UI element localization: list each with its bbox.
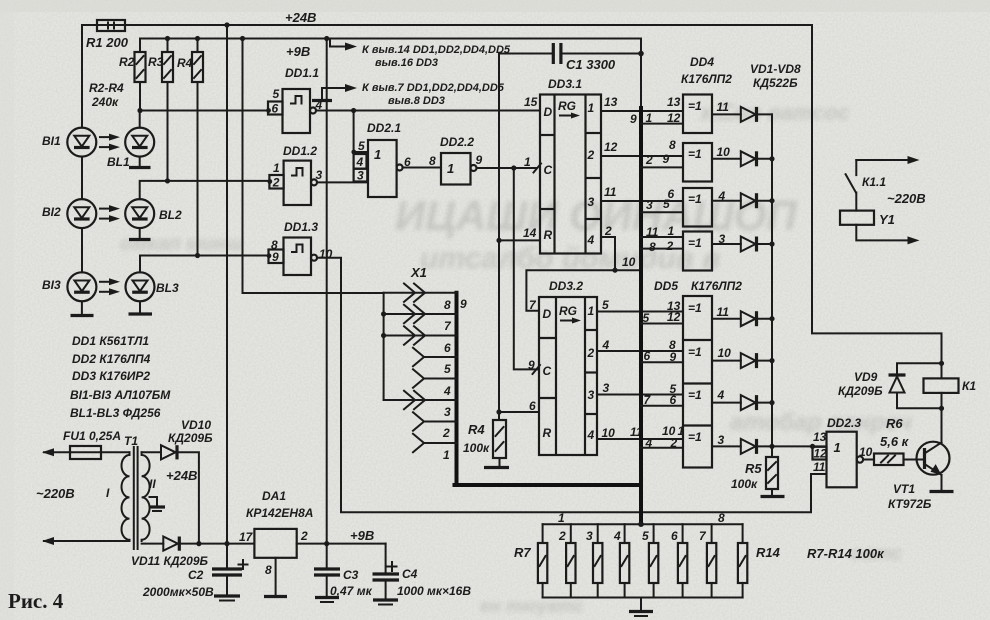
- XOR gate DD4.4: [641, 224, 741, 271]
- wire BI1 to BI2: [81, 157, 83, 200]
- resistor R12: [671, 524, 687, 597]
- group bus horizontal: [455, 483, 642, 487]
- svg-text:R2: R2: [119, 55, 135, 69]
- wire BL2 node to DD1.2 input: [140, 181, 270, 199]
- group bus vertical (thin top): [640, 39, 642, 111]
- wire +24V top rail: [82, 24, 812, 26]
- svg-text:3: 3: [603, 381, 610, 395]
- svg-text:6: 6: [444, 341, 451, 355]
- resistor R10: [613, 524, 629, 597]
- svg-text:10: 10: [319, 247, 333, 261]
- svg-text:5: 5: [643, 311, 650, 325]
- wire BL1 node to DD1.1 input: [140, 111, 268, 128]
- svg-text:К1.1: К1.1: [862, 175, 886, 189]
- group bus vertical (thick): [639, 108, 643, 524]
- svg-text:+24В: +24В: [285, 10, 316, 25]
- resistor R2: [119, 39, 146, 111]
- wire VT1 collector up: [941, 408, 943, 442]
- diode VD6: [741, 353, 775, 368]
- svg-text:BL3: BL3: [156, 281, 179, 295]
- resistor R9: [586, 524, 602, 597]
- emission arrows BI2: [100, 205, 120, 222]
- svg-text:4: 4: [587, 233, 595, 247]
- svg-text:2: 2: [604, 224, 612, 238]
- svg-text:D: D: [544, 105, 553, 119]
- svg-text:1: 1: [443, 448, 450, 462]
- svg-text:4: 4: [602, 338, 610, 352]
- gate DD1.2: [267, 144, 322, 205]
- svg-text:10: 10: [717, 145, 731, 159]
- resistor R8: [558, 524, 576, 597]
- svg-text:9: 9: [272, 250, 279, 264]
- svg-text:~220В: ~220В: [36, 486, 75, 501]
- gate DD1.3: [267, 220, 333, 275]
- svg-text:2: 2: [558, 529, 566, 543]
- svg-text:выв.16 DD3: выв.16 DD3: [375, 57, 438, 69]
- svg-text:10: 10: [718, 346, 732, 360]
- wire DD3.2 out4 to bus and DD5 g4: [597, 438, 683, 440]
- svg-text:5: 5: [444, 362, 451, 376]
- capacitor C1: [499, 43, 641, 72]
- LED BI3: [42, 272, 96, 301]
- svg-text:C3: C3: [343, 568, 359, 582]
- svg-text:R6: R6: [886, 416, 903, 431]
- photodiode BL2: [125, 199, 182, 228]
- capacitor C4: [373, 544, 472, 605]
- transformer T1: [106, 434, 156, 549]
- diode VD10: [161, 418, 213, 544]
- svg-text:2: 2: [587, 346, 595, 360]
- svg-text:5: 5: [602, 298, 609, 312]
- svg-text:ИЦАШИ ОИНАШОП: ИЦАШИ ОИНАШОП: [395, 192, 797, 239]
- svg-text:DD4: DD4: [690, 55, 714, 69]
- diode VD11: [131, 537, 209, 569]
- svg-text:C1 3300: C1 3300: [566, 57, 616, 72]
- svg-text:1: 1: [273, 161, 280, 175]
- svg-text:R1 200: R1 200: [86, 35, 129, 50]
- svg-text:13: 13: [667, 299, 681, 313]
- svg-text:DD2 К176ЛП4: DD2 К176ЛП4: [72, 352, 151, 366]
- fuse FU1: [42, 429, 130, 459]
- svg-text:D: D: [543, 307, 552, 321]
- svg-text:BI1: BI1: [42, 134, 61, 148]
- svg-text:100к: 100к: [731, 477, 758, 491]
- ground BL3: [129, 301, 153, 314]
- svg-text:выв.8 DD3: выв.8 DD3: [388, 95, 445, 107]
- wire rectifier to DA1: [199, 543, 255, 545]
- gate DD2.3: [813, 416, 873, 487]
- svg-text:К1: К1: [962, 379, 976, 393]
- svg-text:8: 8: [669, 338, 676, 352]
- actuator Y1: [840, 211, 920, 245]
- photodiode BL1: [107, 128, 154, 169]
- svg-text:15: 15: [524, 95, 538, 109]
- XOR gate DD4.1: [630, 95, 741, 134]
- node +24V rail to PSU column: [224, 22, 229, 27]
- XOR gate DD5.4: [641, 424, 741, 450]
- svg-text:5: 5: [273, 87, 280, 101]
- svg-text:2: 2: [670, 436, 678, 450]
- svg-text:12: 12: [814, 447, 828, 461]
- svg-text:КТ972Б: КТ972Б: [888, 497, 932, 511]
- XOR gate DD5.3: [641, 382, 741, 407]
- svg-text:+9В: +9В: [350, 528, 374, 543]
- ground BL1: [129, 157, 151, 168]
- svg-text:3: 3: [444, 405, 451, 419]
- svg-text:12: 12: [667, 111, 681, 125]
- XOR gate DD5.1: [641, 296, 741, 468]
- ground BI3: [71, 301, 94, 315]
- svg-text:6: 6: [668, 187, 675, 201]
- svg-text:R7-R14 100к: R7-R14 100к: [807, 546, 885, 561]
- X1 contact 4: [413, 369, 457, 398]
- ground T1 center tap: [149, 497, 165, 511]
- X1 contact 7: [381, 305, 457, 333]
- photodiode BL3: [126, 272, 179, 301]
- wire C1 left column to R inputs and R4: [498, 54, 500, 421]
- svg-text:14: 14: [523, 226, 537, 240]
- svg-text:R5: R5: [745, 461, 762, 476]
- X1 group bus vertical: [455, 293, 459, 484]
- svg-text:9: 9: [630, 112, 637, 126]
- diode VD2: [741, 151, 775, 166]
- transistor VT1: [888, 442, 950, 511]
- svg-text:FU1 0,25А: FU1 0,25А: [63, 429, 121, 443]
- diode VD9: [838, 363, 944, 411]
- wire DD3.1 out3 to DD4 g3: [601, 200, 683, 202]
- wire DD3.2 out2 to DD5 g2: [597, 350, 683, 352]
- svg-text:8: 8: [669, 138, 676, 152]
- svg-text:R14: R14: [756, 545, 781, 560]
- resistor R13: [699, 524, 716, 597]
- svg-text:=1: =1: [688, 345, 702, 359]
- svg-text:2000мк×50В: 2000мк×50В: [142, 585, 214, 599]
- svg-text:DD3 К176ИР2: DD3 К176ИР2: [72, 369, 150, 383]
- wire mains bottom: [42, 537, 130, 545]
- svg-text:4: 4: [717, 388, 725, 402]
- svg-text:II: II: [149, 477, 156, 491]
- svg-text:1: 1: [588, 101, 595, 115]
- emission arrows BI3: [100, 278, 120, 295]
- X1 jumper bracket: [383, 293, 385, 400]
- ground R4: [484, 458, 509, 468]
- svg-text:DA1: DA1: [262, 489, 286, 503]
- svg-text:8: 8: [265, 563, 272, 577]
- resistor R4 (240k group): [177, 36, 203, 258]
- wire DD3.1 out1 to DD4 g1: [601, 110, 683, 112]
- wire diode summing column: [771, 114, 773, 446]
- register DD3.1: [524, 77, 601, 254]
- svg-text:6: 6: [644, 349, 651, 363]
- svg-text:5: 5: [670, 382, 677, 396]
- XOR gate DD4.3: [641, 187, 741, 227]
- svg-text:=1: =1: [688, 147, 702, 161]
- svg-text:=1: =1: [688, 236, 702, 250]
- svg-text:6: 6: [529, 399, 536, 413]
- ground VT1 emitter: [930, 475, 954, 492]
- svg-text:2: 2: [666, 239, 674, 253]
- diode VD3: [741, 193, 775, 208]
- svg-text:9: 9: [663, 152, 670, 166]
- wire DD2.3 output to R6: [863, 459, 874, 461]
- svg-text:VD1-VD8: VD1-VD8: [750, 62, 801, 76]
- wire DD2.2 output to DD3.1 C: [477, 167, 537, 169]
- svg-text:13: 13: [604, 95, 618, 109]
- svg-text:3: 3: [718, 433, 725, 447]
- resistor R1: [86, 20, 129, 50]
- ground R5: [761, 489, 785, 497]
- capacitor C2: [142, 544, 248, 601]
- wire secondary top to VD10: [142, 451, 161, 453]
- svg-text:X1: X1: [410, 265, 427, 280]
- node C1 right / bus top: [638, 51, 644, 57]
- svg-text:1000 мк×16В: 1000 мк×16В: [397, 584, 471, 598]
- svg-text:8: 8: [444, 298, 451, 312]
- svg-text:=1: =1: [688, 192, 702, 206]
- resistor network R7-R14 top rail: [543, 523, 743, 525]
- resistor R11: [642, 524, 658, 597]
- ground resistor network: [629, 598, 653, 617]
- svg-text:~220В: ~220В: [887, 191, 926, 206]
- register DD3.2: [528, 279, 597, 455]
- svg-text:1: 1: [374, 147, 381, 162]
- label parts list: [70, 334, 171, 420]
- wire DD3.1 out2 to DD4 g2: [601, 155, 683, 157]
- LED BI1: [42, 128, 96, 157]
- wire left rail down to BI chain: [81, 25, 83, 128]
- svg-text:VD9: VD9: [854, 370, 878, 384]
- gate DD2.1: [351, 111, 411, 198]
- svg-text:К выв.14 DD1,DD2,DD4,DD5: К выв.14 DD1,DD2,DD4,DD5: [362, 44, 511, 56]
- wire DD3.2 out3 to DD5 g3: [597, 394, 683, 396]
- svg-text:Y1: Y1: [879, 212, 895, 227]
- svg-text:4: 4: [645, 436, 653, 450]
- svg-text:КД209Б: КД209Б: [168, 431, 213, 445]
- svg-text:VT1: VT1: [893, 482, 915, 496]
- svg-text:BL1: BL1: [107, 155, 130, 169]
- svg-text:11: 11: [717, 305, 730, 319]
- resistor R7: [514, 524, 547, 597]
- wire DD1.2 output to DD2.1 input 3: [317, 181, 368, 183]
- wire DD1.3 output to DD2.3 pin 11 (long route): [317, 258, 827, 513]
- X1 contact 1: [413, 434, 457, 462]
- svg-text:+9В: +9В: [286, 44, 310, 59]
- svg-text:DD1.1: DD1.1: [285, 66, 319, 80]
- svg-text:2: 2: [300, 529, 308, 543]
- svg-text:10: 10: [622, 255, 636, 269]
- svg-text:R4: R4: [177, 56, 193, 70]
- wire +9V rail tap to X1 row 8: [240, 36, 245, 41]
- svg-text:240к: 240к: [91, 95, 119, 109]
- svg-text:1: 1: [588, 304, 595, 318]
- svg-text:10: 10: [859, 445, 873, 459]
- arrow to pins 14 (power): [330, 39, 511, 70]
- X1 contact 2: [413, 412, 457, 440]
- svg-text:1: 1: [524, 155, 531, 169]
- LED BI2: [42, 199, 96, 228]
- svg-text:C4: C4: [402, 567, 418, 581]
- wire DA1 output +9V: [297, 543, 386, 545]
- svg-text:Т1: Т1: [124, 434, 138, 448]
- svg-text:DD1 К561ТЛ1: DD1 К561ТЛ1: [72, 334, 149, 348]
- svg-text:4: 4: [587, 428, 595, 442]
- svg-text:1: 1: [646, 111, 653, 125]
- svg-text:2: 2: [587, 148, 595, 162]
- svg-text:DD2.1: DD2.1: [367, 121, 401, 135]
- svg-text:DD2.3: DD2.3: [827, 416, 861, 430]
- svg-text:+24В: +24В: [166, 468, 197, 483]
- svg-text:К176ЛП2: К176ЛП2: [691, 279, 742, 293]
- diode VD7: [741, 395, 775, 410]
- svg-text:11: 11: [604, 185, 617, 199]
- node rectifier output: [196, 541, 201, 546]
- svg-text:C: C: [544, 163, 553, 177]
- svg-text:К выв.7 DD1,DD2,DD4,DD5: К выв.7 DD1,DD2,DD4,DD5: [362, 82, 505, 94]
- svg-text:R2-R4: R2-R4: [89, 81, 124, 95]
- svg-text:8: 8: [649, 240, 656, 254]
- svg-text:11: 11: [717, 100, 730, 114]
- svg-text:3: 3: [588, 388, 595, 402]
- svg-text:5: 5: [642, 529, 649, 543]
- diode VD5: [741, 311, 775, 326]
- ground BL2: [129, 228, 151, 239]
- svg-text:DD3.1: DD3.1: [548, 77, 582, 91]
- capacitor C3: [314, 544, 373, 602]
- svg-text:3: 3: [316, 168, 323, 182]
- svg-text:9: 9: [460, 297, 467, 311]
- svg-text:R: R: [543, 426, 552, 440]
- svg-text:RG: RG: [559, 304, 577, 318]
- resistor R4 100k: [463, 420, 506, 458]
- svg-text:BL2: BL2: [159, 208, 182, 222]
- relay coil K1: [924, 363, 977, 408]
- svg-text:BI1-BI3 АЛ107БМ: BI1-BI3 АЛ107БМ: [70, 388, 171, 402]
- X1 contact 3: [384, 391, 457, 419]
- svg-text:1: 1: [558, 511, 565, 525]
- X1 contact 6: [381, 326, 457, 355]
- svg-text:3: 3: [588, 195, 595, 209]
- svg-text:R: R: [544, 228, 553, 242]
- wire +9V rail: [140, 38, 641, 40]
- svg-text:DD3.2: DD3.2: [549, 279, 583, 293]
- emission arrows BI1: [100, 134, 120, 151]
- svg-text:10: 10: [662, 424, 676, 438]
- relay contact K1.1: [846, 156, 920, 211]
- svg-text:100к: 100к: [463, 441, 490, 455]
- svg-text:К176ЛП2: К176ЛП2: [681, 72, 732, 86]
- svg-text:4: 4: [613, 529, 621, 543]
- svg-text:=1: =1: [688, 301, 702, 315]
- svg-text:9: 9: [476, 153, 483, 167]
- svg-text:17: 17: [239, 530, 254, 544]
- wire +24V column down to rectifier: [226, 25, 228, 544]
- wire BI2 to BI3: [81, 228, 83, 272]
- wire to DD3.2 pin 6 R: [496, 409, 501, 414]
- svg-text:2: 2: [645, 153, 653, 167]
- svg-text:6: 6: [671, 529, 678, 543]
- svg-text:4: 4: [718, 189, 726, 203]
- gate DD1.1: [266, 66, 322, 133]
- X1 contact 5: [413, 348, 457, 376]
- XOR gate DD4.2: [641, 138, 741, 182]
- svg-text:13: 13: [813, 430, 827, 444]
- svg-text:Рис. 4: Рис. 4: [8, 589, 64, 613]
- svg-text:12: 12: [604, 140, 618, 154]
- svg-text:BI3: BI3: [42, 278, 61, 292]
- wire DD2.2 node to DD3.2 C: [514, 168, 539, 369]
- svg-text:4: 4: [356, 155, 364, 169]
- svg-text:КД522Б: КД522Б: [753, 76, 798, 90]
- wire to DD3.1 pin 14 R: [496, 238, 501, 243]
- XOR gate DD5.2: [641, 338, 741, 364]
- svg-text:DD5: DD5: [654, 279, 678, 293]
- resistor R14: [738, 524, 781, 597]
- svg-text:RG: RG: [558, 99, 576, 113]
- resistor network bottom rail: [543, 597, 743, 599]
- diode VD4: [741, 237, 775, 252]
- svg-text:11: 11: [646, 225, 659, 239]
- svg-text:3: 3: [646, 198, 653, 212]
- svg-text:1: 1: [834, 440, 841, 455]
- resistor R5: [731, 446, 778, 491]
- resistor R3: [148, 36, 173, 184]
- svg-text:6: 6: [272, 102, 279, 116]
- svg-text:DD1.3: DD1.3: [284, 220, 318, 234]
- svg-text:=1: =1: [688, 388, 702, 402]
- svg-text:4: 4: [443, 384, 451, 398]
- svg-text:=1: =1: [688, 430, 702, 444]
- svg-text:КД209Б: КД209Б: [838, 384, 883, 398]
- svg-text:BL1-BL3 ФД256: BL1-BL3 ФД256: [70, 406, 161, 420]
- svg-text:C2: C2: [188, 568, 204, 582]
- resistor R6: [874, 416, 910, 465]
- svg-text:R4: R4: [468, 422, 485, 437]
- svg-text:5: 5: [358, 139, 365, 153]
- wire secondary bottom to VD11: [142, 543, 164, 545]
- svg-text:1: 1: [678, 424, 685, 438]
- svg-text:9: 9: [670, 350, 677, 364]
- svg-text:DD2.2: DD2.2: [440, 135, 474, 149]
- svg-text:2: 2: [442, 426, 450, 440]
- wire DD3.2 out1 to DD5 g1: [597, 311, 683, 313]
- diode VD1: [741, 107, 772, 122]
- svg-text:R3: R3: [148, 55, 164, 69]
- svg-text:DD1.2: DD1.2: [283, 144, 317, 158]
- wire DD2.1 output to DD2.2: [403, 167, 441, 169]
- svg-text:5,6 к: 5,6 к: [880, 434, 910, 449]
- svg-text:2: 2: [272, 176, 280, 190]
- svg-text:8: 8: [718, 511, 725, 525]
- X1 contact 8: [384, 284, 467, 313]
- arrow to pins 7 (common): [312, 82, 505, 107]
- svg-text:11: 11: [813, 460, 826, 474]
- svg-text:1: 1: [447, 161, 454, 176]
- svg-text:10: 10: [602, 426, 616, 440]
- svg-text:1: 1: [668, 224, 675, 238]
- svg-text:8: 8: [429, 154, 436, 168]
- svg-text:VD11 КД209Б: VD11 КД209Б: [131, 554, 209, 568]
- svg-text:ен тюувтс: ен тюувтс: [480, 596, 584, 616]
- svg-text:C: C: [543, 364, 552, 378]
- svg-text:=1: =1: [688, 99, 702, 113]
- wire +9V rail to DA1 output column: [324, 36, 329, 41]
- svg-text:BI2: BI2: [42, 205, 61, 219]
- wire R6 to VT1 base: [904, 459, 925, 461]
- svg-text:VD10: VD10: [181, 418, 211, 432]
- svg-text:3: 3: [586, 529, 593, 543]
- svg-text:омкап минш: омкап минш: [120, 233, 243, 255]
- svg-text:R7: R7: [514, 545, 531, 560]
